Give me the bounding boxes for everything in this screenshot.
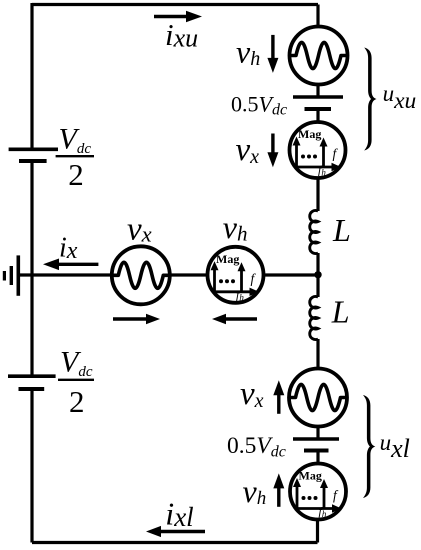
svg-text:ix: ix xyxy=(59,233,78,265)
svg-text:L: L xyxy=(331,294,350,330)
svg-text:2: 2 xyxy=(69,384,85,419)
svg-text:L: L xyxy=(332,212,351,248)
svg-text:2: 2 xyxy=(68,157,84,192)
